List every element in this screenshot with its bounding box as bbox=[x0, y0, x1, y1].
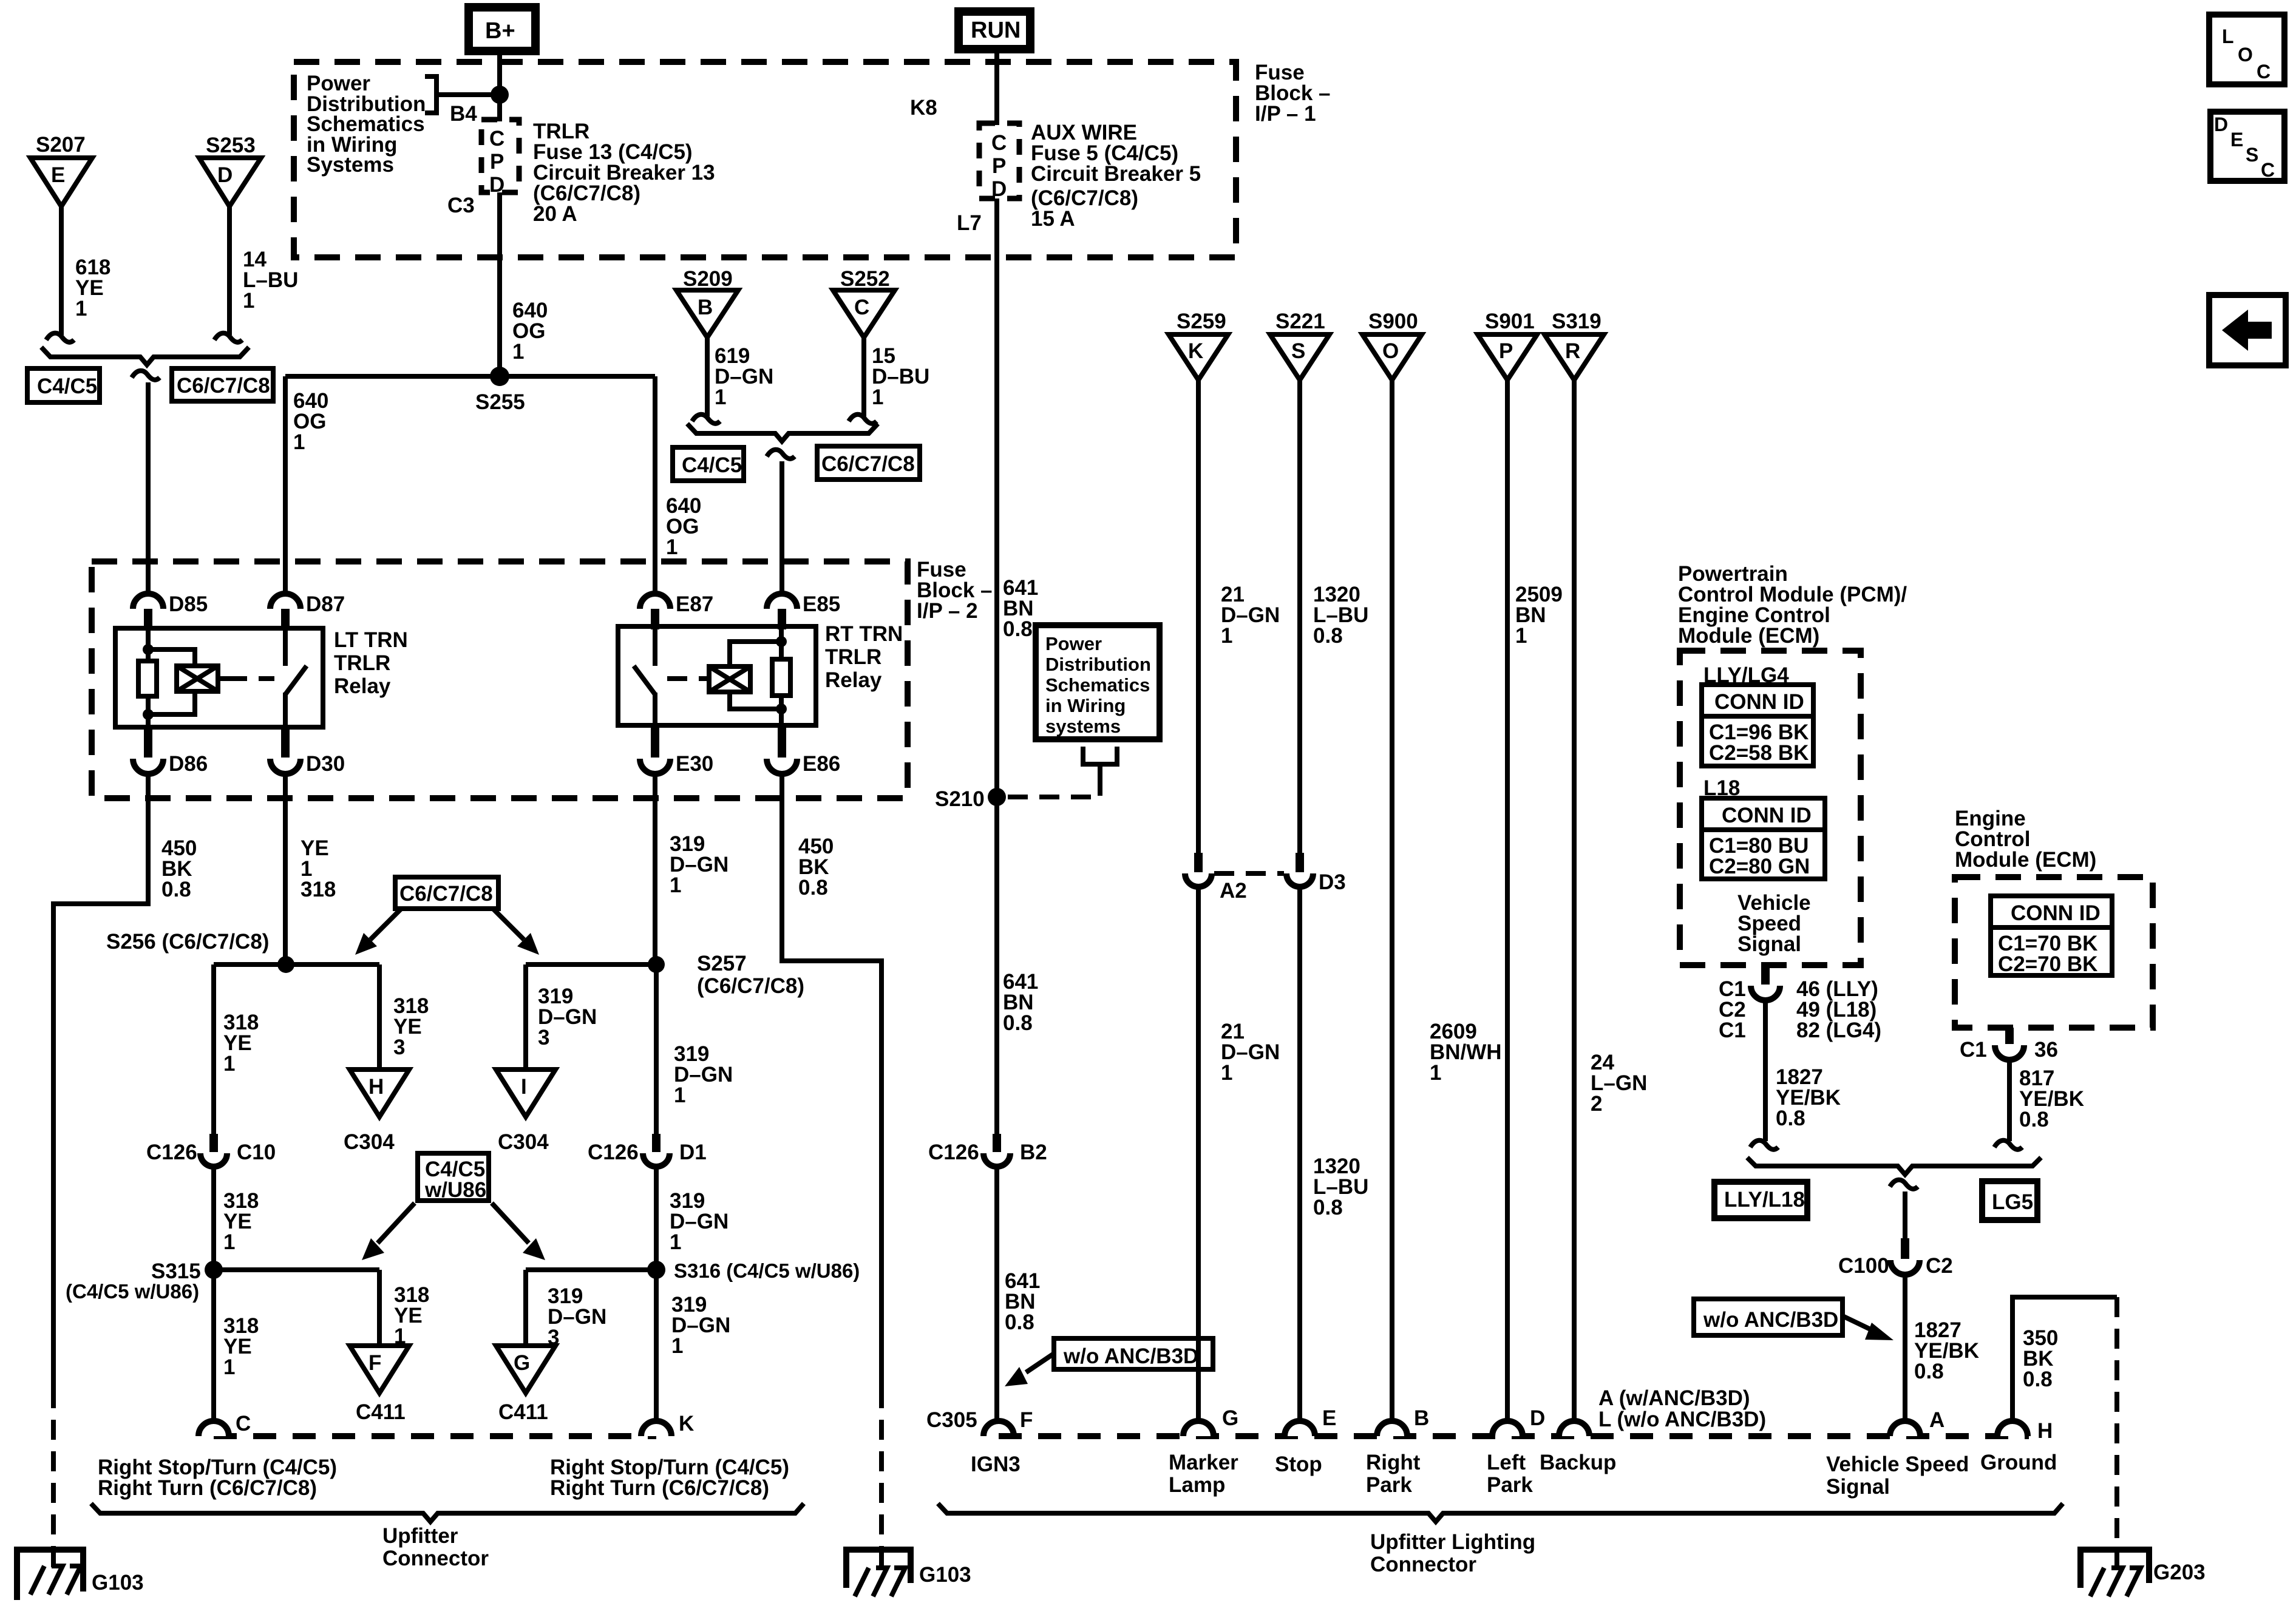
label 1827 YE/BK 0.8 bbox=[1776, 1065, 1841, 1130]
svg-text:TRLR: TRLR bbox=[825, 645, 881, 669]
svg-text:C126: C126 bbox=[588, 1141, 639, 1164]
svg-text:D3: D3 bbox=[1319, 870, 1346, 894]
arrow to S315 bbox=[362, 1203, 415, 1260]
svg-text:w/o ANC/B3D: w/o ANC/B3D bbox=[1703, 1308, 1838, 1332]
wire-end hook E bbox=[46, 333, 74, 342]
label LT TRN TRLR Relay bbox=[334, 628, 408, 698]
label Right Park bbox=[1366, 1451, 1421, 1497]
wire S315 horizontal bbox=[214, 1267, 379, 1272]
label Upfitter Lighting Connector bbox=[1370, 1530, 1535, 1576]
splice triangle S319 R bbox=[1544, 334, 1604, 380]
label 24 L-GN 2 bbox=[1591, 1051, 1647, 1116]
svg-text:1: 1 bbox=[1515, 624, 1527, 648]
note box w/o ANC/B3D right bbox=[1694, 1299, 1843, 1335]
svg-text:Upfitter: Upfitter bbox=[382, 1524, 458, 1548]
svg-text:0.8: 0.8 bbox=[161, 878, 191, 901]
svg-text:1: 1 bbox=[75, 297, 87, 320]
CONN ID box LLY/LG4 bbox=[1702, 685, 1813, 766]
hook under brace B/C bbox=[767, 450, 795, 459]
brace joining E and D wires bbox=[41, 347, 249, 365]
triangle H bbox=[350, 1070, 409, 1117]
svg-text:C: C bbox=[236, 1412, 251, 1436]
brace Upfitter Connector bbox=[91, 1503, 804, 1522]
wire 640 OG to D87 bbox=[283, 376, 288, 594]
pointer box C4/C5 w/U86 bbox=[418, 1153, 489, 1202]
label 319 D-GN 1 below D1 bbox=[670, 1189, 729, 1254]
label A / L pin options bbox=[1598, 1386, 1766, 1431]
svg-text:B+: B+ bbox=[485, 18, 515, 44]
svg-text:C1: C1 bbox=[1960, 1038, 1987, 1062]
svg-text:Relay: Relay bbox=[825, 668, 882, 692]
label Vehicle Speed Signal lower bbox=[1826, 1453, 1969, 1499]
svg-text:H: H bbox=[2037, 1419, 2053, 1443]
DESC reference box bbox=[2210, 112, 2284, 181]
wire-end hook B bbox=[692, 415, 720, 424]
svg-text:1: 1 bbox=[243, 289, 254, 313]
pin backup bbox=[1559, 1421, 1589, 1436]
CPD fuse box (TRLR) bbox=[481, 120, 519, 197]
svg-text:D30: D30 bbox=[306, 752, 345, 776]
svg-text:D1: D1 bbox=[679, 1141, 707, 1164]
label 319 D-GN 3 bbox=[538, 985, 597, 1049]
label 641 BN 0.8 upper bbox=[1003, 576, 1038, 641]
svg-text:1: 1 bbox=[872, 385, 883, 409]
wire branch to G bbox=[523, 1270, 528, 1346]
svg-text:D86: D86 bbox=[169, 752, 208, 776]
wire S256 horizontal bbox=[214, 962, 379, 967]
inline connector C126 C10 bbox=[146, 1134, 276, 1167]
wire D3 to pin E bbox=[1297, 887, 1302, 1422]
svg-text:S210: S210 bbox=[935, 787, 985, 811]
svg-text:G: G bbox=[1222, 1406, 1238, 1430]
splice S315 dot bbox=[205, 1261, 223, 1279]
LT relay coil circuit bbox=[138, 628, 274, 727]
wire 618 YE from S207 bbox=[59, 206, 64, 335]
svg-text:S207: S207 bbox=[36, 133, 86, 157]
svg-text:Signal: Signal bbox=[1737, 932, 1801, 956]
svg-text:D87: D87 bbox=[306, 592, 345, 616]
wire K S259 bbox=[1196, 378, 1201, 853]
svg-text:1: 1 bbox=[512, 340, 524, 364]
svg-text:S257: S257 bbox=[697, 952, 747, 975]
wire brace to C100 bbox=[1903, 1192, 1907, 1238]
svg-text:S256 (C6/C7/C8): S256 (C6/C7/C8) bbox=[106, 930, 269, 954]
svg-text:C6/C7/C8: C6/C7/C8 bbox=[821, 452, 915, 476]
connector box C4/C5 second bbox=[673, 447, 744, 481]
ECM dashed box bbox=[1955, 877, 2153, 1028]
label 1320 L-BU 0.8 upper bbox=[1313, 583, 1368, 648]
ECM output pin bbox=[1960, 1028, 2058, 1062]
pointer box C6/C7/C8 bbox=[395, 877, 498, 909]
svg-text:S901: S901 bbox=[1485, 310, 1535, 333]
RUN power feed box bbox=[959, 12, 1030, 49]
svg-text:C100: C100 bbox=[1838, 1254, 1889, 1278]
svg-text:O: O bbox=[1382, 339, 1399, 363]
splice S210 dot bbox=[988, 788, 1006, 806]
svg-text:S252: S252 bbox=[840, 267, 890, 291]
label 641 BN 0.8 lower bbox=[1005, 1269, 1040, 1334]
wire S255 horizontal bbox=[285, 374, 655, 379]
svg-text:B4: B4 bbox=[450, 102, 477, 126]
arrow to S256 bbox=[355, 909, 401, 955]
label Fuse Block I/P-1 bbox=[1255, 61, 1331, 126]
svg-text:A2: A2 bbox=[1220, 879, 1247, 903]
arrow w/o ANC to wire bbox=[1005, 1354, 1054, 1386]
svg-text:1: 1 bbox=[223, 1230, 235, 1254]
label Left Park bbox=[1487, 1451, 1533, 1497]
svg-text:O: O bbox=[2238, 44, 2253, 66]
svg-text:S900: S900 bbox=[1368, 310, 1418, 333]
label 319 D-GN 1 bbox=[670, 832, 729, 897]
svg-text:3: 3 bbox=[393, 1036, 405, 1059]
splice S256 dot bbox=[277, 956, 294, 973]
svg-text:D: D bbox=[2214, 114, 2228, 135]
svg-text:Right Turn (C6/C7/C8): Right Turn (C6/C7/C8) bbox=[550, 1476, 769, 1500]
label 619 D-GN 1 bbox=[715, 344, 773, 409]
ground G203 bbox=[2080, 1550, 2149, 1596]
svg-text:A: A bbox=[1929, 1408, 1944, 1432]
wire S257 branch to I bbox=[523, 964, 528, 1070]
wire from RUN to CPD fuse 5 bbox=[994, 51, 999, 125]
arrow to S257 bbox=[493, 909, 539, 955]
svg-text:(C6/C7/C8): (C6/C7/C8) bbox=[697, 974, 804, 998]
svg-text:C126: C126 bbox=[928, 1141, 979, 1164]
svg-text:IGN3: IGN3 bbox=[971, 1453, 1021, 1476]
svg-text:1: 1 bbox=[670, 1230, 681, 1254]
ground G103 center bbox=[846, 1550, 911, 1596]
svg-text:S319: S319 bbox=[1552, 310, 1601, 333]
svg-text:I/P – 2: I/P – 2 bbox=[917, 599, 978, 623]
svg-text:in Wiring: in Wiring bbox=[1045, 695, 1126, 716]
label Marker Lamp bbox=[1169, 1451, 1238, 1497]
svg-text:Marker: Marker bbox=[1169, 1451, 1238, 1474]
svg-text:Schematics: Schematics bbox=[1045, 674, 1150, 696]
svg-text:0.8: 0.8 bbox=[2019, 1108, 2049, 1131]
svg-text:1: 1 bbox=[715, 385, 726, 409]
CPD fuse box (AUX WIRE) bbox=[979, 123, 1019, 201]
hook under PCM brace bbox=[1890, 1180, 1918, 1189]
label 450 BK 0.8 E86 bbox=[798, 835, 834, 900]
svg-text:Right: Right bbox=[1366, 1451, 1421, 1474]
svg-text:0.8: 0.8 bbox=[1003, 1011, 1033, 1035]
inline connector C126 B2 bbox=[928, 1134, 1047, 1167]
pin K bbox=[641, 1412, 694, 1436]
svg-text:C2=70 BK: C2=70 BK bbox=[1998, 952, 2097, 976]
svg-text:C: C bbox=[489, 127, 504, 151]
svg-text:w/o ANC/B3D: w/o ANC/B3D bbox=[1063, 1344, 1198, 1368]
wire A2 to pin G bbox=[1196, 887, 1201, 1422]
arrow w/o ANC right to wire bbox=[1843, 1316, 1894, 1340]
wire R S319 bbox=[1572, 378, 1577, 1422]
svg-text:C6/C7/C8: C6/C7/C8 bbox=[399, 882, 493, 906]
svg-text:I: I bbox=[521, 1075, 527, 1099]
upfitter connector dashed line bbox=[214, 1433, 656, 1439]
wire YE 318 from D30 to S256 bbox=[283, 774, 288, 964]
svg-text:RT TRN: RT TRN bbox=[825, 622, 903, 646]
wire S S221 bbox=[1297, 378, 1302, 853]
svg-text:F: F bbox=[1020, 1408, 1033, 1432]
svg-text:H: H bbox=[369, 1075, 384, 1099]
wire 14 L-BU from S253 bbox=[227, 206, 232, 335]
dashed wire to G103 bbox=[51, 1388, 56, 1551]
pin D30 bbox=[270, 727, 345, 776]
wire 641 BN (IGN3 feed) bbox=[994, 198, 999, 1134]
svg-text:Signal: Signal bbox=[1826, 1475, 1890, 1499]
label 14 L-BU 1 bbox=[243, 248, 298, 313]
inline connector C126 A2 bbox=[1185, 853, 1247, 903]
label AUX WIRE Fuse 5 bbox=[1031, 121, 1201, 231]
svg-text:C: C bbox=[2257, 61, 2271, 83]
svg-text:TRLR: TRLR bbox=[334, 651, 390, 675]
pin C bbox=[199, 1412, 251, 1436]
svg-text:318: 318 bbox=[301, 878, 336, 901]
svg-text:w/U86: w/U86 bbox=[424, 1178, 486, 1202]
svg-text:G103: G103 bbox=[919, 1563, 971, 1587]
label Engine Control Module bbox=[1955, 807, 2096, 872]
wire S256 left branch down bbox=[211, 964, 216, 1134]
arrow to S316 bbox=[492, 1203, 545, 1260]
svg-text:C: C bbox=[991, 131, 1007, 155]
label 21 D-GN 1 lower bbox=[1221, 1020, 1280, 1085]
svg-text:S253: S253 bbox=[206, 134, 256, 157]
svg-text:C304: C304 bbox=[498, 1130, 549, 1154]
wire-end hook C bbox=[849, 415, 877, 424]
wire 640 OG to E87 bbox=[653, 376, 657, 594]
wire S315 down to pin C bbox=[211, 1270, 216, 1422]
pin E86 bbox=[767, 725, 840, 776]
svg-text:1: 1 bbox=[1221, 624, 1232, 648]
splice triangle S901 P bbox=[1478, 334, 1537, 380]
svg-text:1: 1 bbox=[1221, 1061, 1232, 1085]
svg-text:L: L bbox=[2222, 25, 2234, 47]
svg-text:0.8: 0.8 bbox=[1313, 1196, 1343, 1219]
wire S316 horizontal bbox=[526, 1267, 656, 1272]
svg-text:E: E bbox=[1322, 1406, 1336, 1430]
splice S255 dot bbox=[490, 367, 509, 386]
label 1827 YE/BK 0.8 lower bbox=[1914, 1318, 1979, 1383]
pin E30 bbox=[640, 725, 713, 776]
svg-text:Connector: Connector bbox=[1370, 1553, 1476, 1576]
connector box LLY/L18 bbox=[1714, 1182, 1807, 1218]
label 641 BN 0.8 middle bbox=[1003, 970, 1038, 1035]
label 319 D-GN 1 second bbox=[674, 1042, 733, 1107]
pin B bbox=[1377, 1406, 1429, 1436]
svg-text:K: K bbox=[1188, 339, 1203, 363]
relay box RT TRN TRLR bbox=[618, 626, 816, 725]
wire C2 to pin A bbox=[1903, 1275, 1907, 1422]
svg-text:G103: G103 bbox=[92, 1571, 144, 1595]
svg-text:LG5: LG5 bbox=[1992, 1190, 2033, 1214]
note Power Distribution Schematics in Wiring Systems bbox=[307, 72, 426, 177]
svg-text:G: G bbox=[514, 1351, 530, 1375]
svg-text:3: 3 bbox=[538, 1026, 549, 1049]
pin D86 bbox=[133, 727, 208, 776]
svg-text:C411: C411 bbox=[356, 1400, 406, 1424]
svg-text:E87: E87 bbox=[676, 592, 713, 616]
wire C10 to S315 bbox=[211, 1167, 216, 1270]
svg-text:Power: Power bbox=[1045, 633, 1102, 654]
label 1320 L-BU 0.8 lower bbox=[1313, 1154, 1368, 1219]
triangle G bbox=[496, 1346, 555, 1393]
svg-text:1: 1 bbox=[1430, 1061, 1441, 1085]
svg-text:2: 2 bbox=[1591, 1092, 1602, 1116]
wire from brace to E85 bbox=[779, 461, 784, 594]
splice S257 dot bbox=[648, 956, 665, 973]
wire 350 BK loop bbox=[2012, 1297, 2117, 1422]
pin C305 F bbox=[926, 1408, 1033, 1436]
label 2509 BN 1 bbox=[1515, 583, 1563, 648]
svg-text:S221: S221 bbox=[1275, 310, 1325, 333]
svg-text:E30: E30 bbox=[676, 752, 713, 776]
label 319 D-GN 1 above pin K bbox=[671, 1293, 730, 1358]
splice triangle S259 K bbox=[1169, 334, 1228, 380]
svg-text:C: C bbox=[2261, 159, 2275, 181]
svg-text:C4/C5: C4/C5 bbox=[682, 453, 742, 477]
label Powertrain Control Module bbox=[1678, 562, 1907, 648]
svg-text:E85: E85 bbox=[803, 592, 840, 616]
connector box C4/C5 bbox=[27, 368, 100, 402]
svg-text:Systems: Systems bbox=[307, 153, 394, 177]
svg-text:D: D bbox=[991, 177, 1007, 201]
label YE 1 318 bbox=[301, 836, 336, 901]
svg-text:1: 1 bbox=[671, 1334, 683, 1358]
wire 15 D-BU bbox=[861, 337, 866, 416]
svg-text:1: 1 bbox=[666, 535, 678, 559]
svg-text:E: E bbox=[51, 163, 65, 187]
svg-text:Circuit Breaker 5: Circuit Breaker 5 bbox=[1031, 162, 1201, 186]
label S315 (C4/C5 w/U86) bbox=[66, 1259, 201, 1303]
wire S257 down to D1 bbox=[654, 964, 659, 1134]
label S257 (C6/C7/C8) bbox=[697, 952, 804, 998]
label 350 BK 0.8 bbox=[2023, 1326, 2058, 1391]
svg-text:C4/C5: C4/C5 bbox=[37, 375, 97, 398]
wire 817 YE/BK from ECM bbox=[2007, 1060, 2012, 1141]
wire from brace to relay D85 bbox=[146, 382, 151, 594]
svg-text:1: 1 bbox=[223, 1355, 235, 1379]
splice triangle S900 O bbox=[1362, 334, 1422, 380]
svg-text:C126: C126 bbox=[146, 1141, 197, 1164]
svg-text:I/P – 1: I/P – 1 bbox=[1255, 102, 1316, 126]
label Fuse Block I/P-2 bbox=[917, 558, 993, 623]
wire S257 horizontal bbox=[526, 962, 656, 967]
svg-text:D: D bbox=[1530, 1406, 1545, 1430]
PCM dashed box bbox=[1680, 651, 1861, 965]
wire 319 D-GN from E30 to S257 bbox=[653, 774, 657, 964]
label 318 YE 1 bbox=[223, 1011, 259, 1076]
svg-text:C6/C7/C8: C6/C7/C8 bbox=[177, 374, 270, 398]
svg-text:Lamp: Lamp bbox=[1169, 1473, 1225, 1497]
RT relay switch bbox=[634, 626, 655, 725]
labels C1 C2 C1 bbox=[1719, 977, 1746, 1042]
svg-text:Vehicle Speed: Vehicle Speed bbox=[1826, 1453, 1969, 1476]
svg-text:0.8: 0.8 bbox=[2023, 1368, 2053, 1391]
labels 46 49 82 bbox=[1796, 977, 1881, 1042]
wire branch to F bbox=[377, 1270, 382, 1346]
svg-text:Ground: Ground bbox=[1980, 1451, 2057, 1474]
dashed wire to G203 bbox=[2114, 1297, 2119, 1551]
svg-text:CONN ID: CONN ID bbox=[2011, 901, 2101, 925]
svg-text:systems: systems bbox=[1045, 716, 1121, 737]
svg-text:1: 1 bbox=[223, 1052, 235, 1076]
ground G103 left bbox=[17, 1550, 83, 1600]
svg-text:E: E bbox=[2230, 129, 2243, 151]
label Vehicle Speed Signal bbox=[1737, 891, 1811, 956]
svg-text:S255: S255 bbox=[475, 390, 525, 414]
svg-text:(C4/C5 w/U86): (C4/C5 w/U86) bbox=[66, 1280, 199, 1303]
CONN ID box ECM bbox=[1991, 896, 2112, 976]
B4 bracket bbox=[425, 76, 495, 113]
svg-text:Upfitter Lighting: Upfitter Lighting bbox=[1370, 1530, 1535, 1554]
connector box C6/C7/C8 second bbox=[817, 446, 920, 480]
pin G bbox=[1183, 1406, 1238, 1436]
svg-text:D: D bbox=[489, 173, 504, 197]
splice triangle S209 B bbox=[676, 290, 738, 337]
svg-text:G203: G203 bbox=[2153, 1561, 2206, 1584]
svg-text:Right Turn (C6/C7/C8): Right Turn (C6/C7/C8) bbox=[98, 1476, 317, 1500]
svg-text:C2=58 BK: C2=58 BK bbox=[1709, 741, 1809, 765]
svg-text:82 (LG4): 82 (LG4) bbox=[1796, 1019, 1881, 1042]
svg-text:0.8: 0.8 bbox=[1003, 617, 1033, 641]
fuse block I/P-2 dashed box bbox=[92, 561, 908, 798]
label 21 D-GN 1 upper bbox=[1221, 583, 1280, 648]
splice triangle S221 S bbox=[1270, 334, 1330, 380]
svg-text:F: F bbox=[369, 1351, 381, 1375]
label 318 YE 1 above pin C bbox=[223, 1314, 259, 1379]
svg-text:L (w/o ANC/B3D): L (w/o ANC/B3D) bbox=[1598, 1408, 1766, 1431]
svg-text:S316 (C4/C5 w/U86): S316 (C4/C5 w/U86) bbox=[674, 1259, 860, 1282]
svg-text:K: K bbox=[679, 1412, 694, 1436]
svg-text:15 A: 15 A bbox=[1031, 207, 1075, 231]
label Right Stop/Turn right bbox=[550, 1456, 789, 1500]
label Right Stop/Turn left bbox=[98, 1456, 337, 1500]
svg-text:D85: D85 bbox=[169, 592, 208, 616]
svg-text:S259: S259 bbox=[1177, 310, 1226, 333]
label 817 YE/BK 0.8 bbox=[2019, 1066, 2084, 1131]
triangle I bbox=[496, 1070, 555, 1117]
label 450 BK 0.8 bbox=[161, 836, 197, 901]
svg-text:Relay: Relay bbox=[334, 674, 391, 698]
wire 450 BK from D86 to G103 bbox=[53, 774, 148, 1388]
svg-text:RUN: RUN bbox=[971, 18, 1021, 43]
pin D87 bbox=[270, 592, 345, 629]
svg-text:B: B bbox=[698, 296, 713, 319]
label 640 OG 1 left branch bbox=[293, 389, 328, 454]
upfitter lighting dashed line bbox=[999, 1433, 2029, 1439]
label 2609 BN/WH 1 bbox=[1430, 1020, 1502, 1085]
svg-text:Module (ECM): Module (ECM) bbox=[1955, 848, 2096, 872]
pin H bbox=[1997, 1419, 2053, 1443]
svg-text:1: 1 bbox=[293, 430, 305, 454]
wire S256 right branch to H bbox=[377, 964, 382, 1070]
label 318 YE 3 bbox=[393, 994, 429, 1059]
svg-text:P: P bbox=[490, 150, 504, 174]
note box w/o ANC/B3D left bbox=[1054, 1338, 1213, 1369]
wire P S901 bbox=[1505, 378, 1510, 1422]
label 640 OG 1 right branch bbox=[666, 494, 701, 559]
brace joining PCM/ECM wires bbox=[1747, 1158, 2041, 1175]
svg-text:S: S bbox=[2246, 144, 2258, 166]
svg-text:C: C bbox=[854, 296, 869, 319]
label Upfitter Connector bbox=[382, 1524, 489, 1570]
wire 640 OG from fuse to S255 bbox=[497, 192, 502, 376]
svg-text:LT TRN: LT TRN bbox=[334, 628, 408, 652]
svg-text:C2=80 GN: C2=80 GN bbox=[1709, 855, 1810, 878]
wire B2 to C305 F bbox=[994, 1167, 999, 1422]
svg-text:1: 1 bbox=[674, 1083, 685, 1107]
label 15 D-BU 1 bbox=[872, 344, 929, 409]
CONN ID box L18 bbox=[1702, 798, 1825, 879]
wire 619 D-GN bbox=[705, 337, 710, 416]
